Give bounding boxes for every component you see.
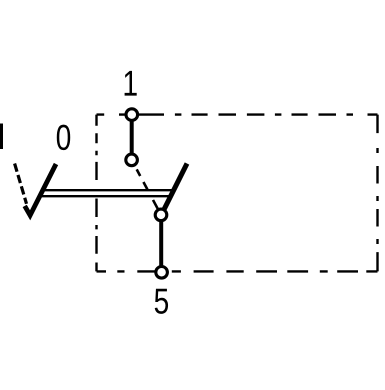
contact pivot circle upper	[126, 154, 138, 166]
frame left edge	[95, 115, 97, 272]
contact solid lever	[162, 164, 188, 215]
frame top edge (dash-dot boundary)	[97, 113, 378, 115]
frame bottom edge	[97, 270, 378, 272]
wire contact to terminal5	[159, 215, 163, 272]
terminal 1 circle	[126, 109, 138, 121]
label 5 (terminal)	[155, 289, 168, 314]
label 1 (position, cut at edge)	[0, 124, 3, 150]
frame right edge	[376, 115, 378, 272]
terminal 5 circle	[156, 267, 168, 279]
actuator solid lever with V tip	[25, 164, 56, 215]
actuator dashed position lever	[15, 164, 27, 204]
linkage bar top line	[43, 189, 174, 191]
wire terminal1 to contact	[130, 115, 134, 160]
contact pivot circle lower	[155, 209, 167, 221]
label 1 (terminal)	[125, 71, 137, 96]
linkage bar bottom line	[40, 195, 171, 197]
label 0 (position)	[57, 125, 70, 150]
contact dashed position lever	[132, 160, 161, 215]
